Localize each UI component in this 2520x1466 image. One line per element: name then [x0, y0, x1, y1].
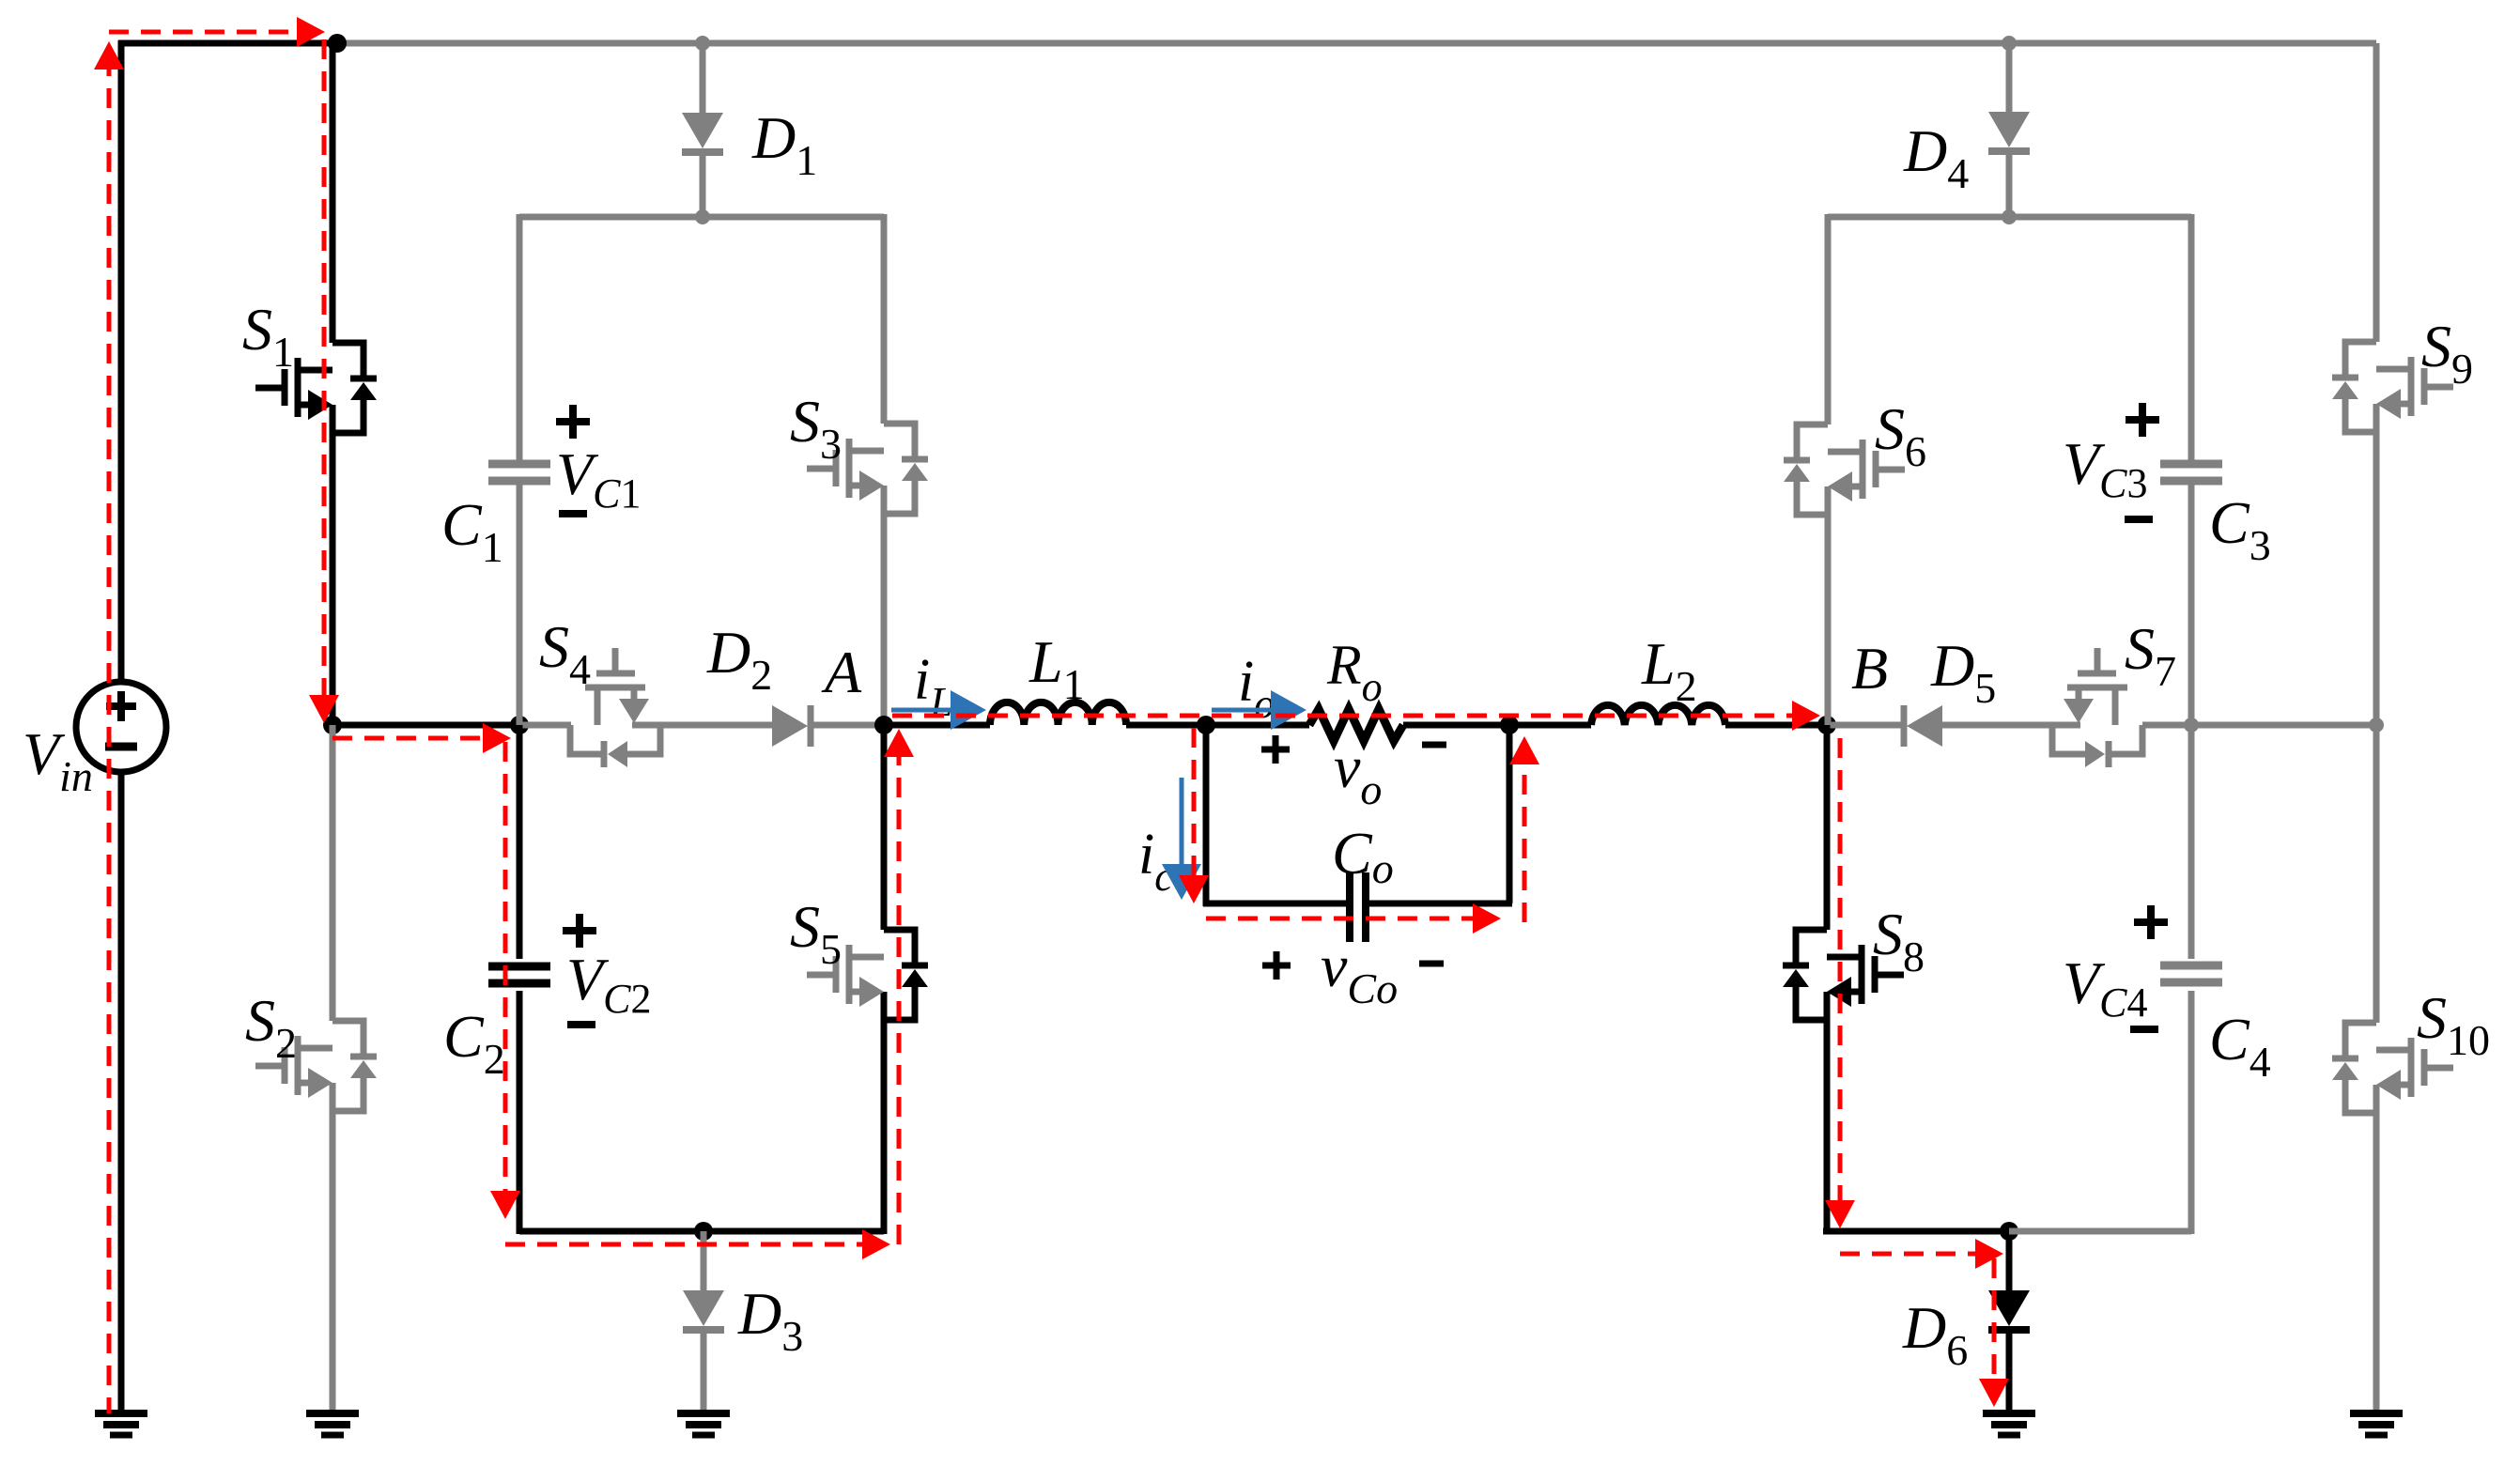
label D5	[1930, 632, 1996, 712]
diode D4	[1988, 112, 2030, 151]
current path arrow down Co	[1179, 875, 1209, 903]
label C3	[2209, 489, 2271, 569]
wire S3 source	[881, 514, 888, 725]
current path arrow up A	[884, 729, 914, 757]
label VC3 plus	[2126, 403, 2159, 437]
resistor Ro	[1309, 709, 1403, 741]
svg-text:L2: L2	[1641, 630, 1697, 710]
current path S1 vertical	[322, 39, 327, 695]
label VC4	[2063, 949, 2147, 1026]
label vo	[1334, 733, 1382, 813]
transistor S1	[255, 343, 377, 433]
transistor S3	[807, 424, 928, 514]
transistor S6	[1784, 424, 1905, 515]
node C3-rail junction	[2184, 718, 2199, 733]
wire Co loop bottom-left	[1203, 901, 1350, 907]
node J2	[1500, 716, 1519, 734]
label Co	[1332, 820, 1394, 892]
capacitor C2	[488, 966, 550, 983]
wire B to D5	[1827, 722, 1901, 729]
transistor S7	[2052, 648, 2142, 767]
svg-text:D5: D5	[1930, 632, 1996, 712]
label C2	[443, 1003, 505, 1083]
node top-left junction	[328, 34, 347, 53]
label S9	[2421, 313, 2473, 393]
current path bottom left horizontal	[505, 1242, 862, 1247]
label vCo plus	[1262, 951, 1291, 980]
label S3	[790, 388, 842, 468]
svg-text:S6: S6	[1875, 395, 1926, 475]
current path arrow right Co	[1473, 903, 1501, 934]
ground Vin	[95, 1413, 147, 1435]
svg-text:Vin: Vin	[23, 720, 93, 800]
current path top horizontal	[109, 30, 297, 35]
wire C1-box top	[519, 214, 884, 221]
label S1	[242, 296, 294, 376]
wire D5 to S7	[1942, 722, 2052, 729]
wire C1 bottom	[517, 485, 523, 725]
svg-text:A: A	[821, 639, 862, 705]
svg-text:S3: S3	[790, 388, 842, 468]
current path bottom right horizontal	[1840, 1252, 1975, 1257]
transistor S8	[1783, 930, 1904, 1020]
wire S6 drain	[1825, 214, 1832, 424]
current path arrow down C2	[490, 1191, 520, 1219]
node D1 top junction	[695, 36, 710, 51]
current path arrow down ground	[1979, 1379, 2009, 1407]
current path arrow right B	[1792, 701, 1820, 731]
label C4	[2209, 1006, 2271, 1086]
wire S8 drain	[1824, 725, 1831, 930]
svg-text:S10: S10	[2417, 984, 2490, 1064]
svg-text:S2: S2	[245, 987, 297, 1067]
label S7	[2125, 615, 2176, 695]
current path arrow right rail	[483, 723, 511, 753]
label VC3	[2063, 430, 2147, 506]
wire C4 lower vertical	[2188, 991, 2195, 1234]
wire Co loop right	[1507, 725, 1513, 903]
svg-text:D1: D1	[751, 104, 817, 184]
wire D3 top	[701, 1231, 707, 1290]
node D4 top junction	[2002, 36, 2017, 51]
svg-text:Co: Co	[1332, 820, 1394, 892]
label VC1	[556, 440, 641, 517]
current path Co left vertical	[1192, 728, 1197, 877]
svg-text:Ro: Ro	[1326, 634, 1383, 710]
wire L2 to B	[1725, 722, 1827, 729]
node D3 junction	[694, 1222, 713, 1241]
label B	[1851, 635, 1888, 702]
node S1-rail junction	[323, 716, 342, 734]
svg-text:VC1: VC1	[556, 440, 641, 517]
transistor S9	[2332, 342, 2453, 432]
label VC1 plus	[556, 405, 590, 439]
current path S5 vertical	[897, 757, 902, 1244]
node B	[1817, 716, 1836, 734]
svg-text:D4: D4	[1903, 117, 1969, 197]
wire mid rail black	[332, 722, 522, 729]
label VC2	[566, 946, 651, 1022]
wire Vin top horizontal	[118, 40, 337, 47]
svg-text:S8: S8	[1873, 901, 1925, 980]
ground S10	[2350, 1413, 2403, 1435]
current path Co bottom	[1206, 917, 1473, 921]
label VC2 plus	[563, 914, 596, 948]
transistor S10	[2332, 1023, 2453, 1113]
wire S2 drain	[330, 725, 336, 1021]
wire D2 to A	[813, 722, 884, 729]
wire S3 drain	[881, 214, 888, 424]
ground S2	[306, 1413, 359, 1435]
wire C2 bottom	[517, 991, 523, 1234]
node J1	[1197, 716, 1215, 734]
svg-text:VC3: VC3	[2063, 430, 2147, 506]
wire S1 drain	[330, 43, 336, 343]
label S8	[1873, 901, 1925, 980]
transistor S5	[807, 930, 928, 1020]
wire S4 to D2	[660, 722, 772, 729]
current path arrow right D6	[1975, 1239, 2003, 1269]
wire S6 source	[1825, 515, 1832, 725]
svg-text:C3: C3	[2209, 489, 2271, 569]
wire right rail top segment	[2373, 43, 2380, 342]
wire D4 top	[2006, 43, 2013, 112]
current path arrow up J2	[1509, 736, 1539, 764]
svg-text:S1: S1	[242, 296, 294, 376]
diode D2	[772, 705, 811, 747]
wire A to L1	[884, 722, 990, 729]
wire rail to S4	[522, 722, 571, 729]
label S4	[539, 613, 591, 693]
wire L1 to J1	[1126, 722, 1206, 729]
wire D6 top	[2006, 1231, 2013, 1290]
node D6 junction	[2000, 1222, 2018, 1241]
wire rail to right rail	[2191, 722, 2376, 729]
label Vin	[23, 720, 93, 800]
wire top rail gray	[337, 40, 2376, 47]
diode D3	[683, 1290, 724, 1330]
capacitor C3	[2160, 464, 2222, 481]
label Ro	[1326, 634, 1383, 710]
wire S8 to D6 junction	[1823, 1228, 2009, 1235]
label D3	[737, 1280, 803, 1360]
wire C4 bottom horizontal	[2009, 1228, 2191, 1235]
wire S8 source	[1824, 1020, 1831, 1234]
wire D1 bottom	[700, 152, 706, 217]
svg-text:vo: vo	[1334, 733, 1382, 813]
svg-text:S7: S7	[2125, 615, 2176, 695]
svg-text:VC2: VC2	[566, 946, 651, 1022]
label D2	[706, 619, 772, 699]
wire right-box top	[1828, 214, 2191, 221]
current arrow io	[1212, 690, 1306, 730]
current path Co right vertical	[1523, 763, 1527, 922]
svg-text:ic: ic	[1138, 823, 1173, 900]
wire S5 source	[881, 1020, 888, 1234]
wire D6 bottom	[2006, 1330, 2013, 1413]
label L1	[1028, 628, 1085, 708]
svg-text:S9: S9	[2421, 313, 2473, 393]
wire J1 to Ro	[1206, 722, 1309, 729]
label L2	[1641, 630, 1697, 710]
current path S8 vertical	[1838, 738, 1843, 1200]
svg-text:D6: D6	[1902, 1294, 1968, 1374]
svg-text:VC4: VC4	[2063, 949, 2147, 1026]
svg-text:S5: S5	[790, 893, 842, 973]
capacitor C4	[2160, 965, 2222, 982]
svg-text:vCo: vCo	[1321, 933, 1398, 1012]
label io	[1238, 650, 1275, 727]
current arrow iL	[891, 690, 986, 730]
ground D3	[677, 1413, 730, 1435]
capacitor C1	[488, 464, 550, 481]
svg-text:C2: C2	[443, 1003, 505, 1083]
wire C3 top	[2188, 214, 2195, 460]
label VC2 minus	[567, 1021, 595, 1028]
wire C3 bottom	[2188, 485, 2195, 725]
transistor S4	[570, 648, 660, 767]
node D1 bottom junction	[695, 209, 710, 224]
node right-rail mid junction	[2369, 718, 2384, 733]
label iL	[914, 648, 953, 725]
label VC4 plus	[2134, 905, 2168, 939]
wire C2-box bottom	[519, 1228, 884, 1235]
svg-text:C1: C1	[441, 491, 503, 571]
wire D4 bottom	[2006, 151, 2013, 217]
label VC4 minus	[2130, 1026, 2158, 1033]
label VC3 minus	[2125, 516, 2153, 523]
svg-text:S4: S4	[539, 613, 591, 693]
node D4 bottom junction	[2002, 209, 2017, 224]
label S10	[2417, 984, 2490, 1064]
wire J2 to L2	[1509, 722, 1591, 729]
diode D5	[1904, 705, 1942, 747]
wire S2 source	[330, 1111, 336, 1413]
svg-text:D2: D2	[706, 619, 772, 699]
label S2	[245, 987, 297, 1067]
wire right rail bottom	[2373, 1113, 2380, 1413]
label VC1 minus	[559, 510, 587, 517]
wire C4 upper vertical	[2188, 725, 2195, 959]
wire D3 bottom	[701, 1330, 707, 1413]
voltage source Vin circle	[76, 682, 166, 772]
ground D6	[1983, 1413, 2035, 1435]
wire right rail mid	[2373, 432, 2380, 1023]
label vCo minus	[1419, 961, 1444, 967]
node C-branch rail junction	[510, 716, 529, 734]
svg-text:B: B	[1851, 635, 1888, 702]
wire Co loop bottom-right	[1366, 901, 1512, 907]
inductor L1	[990, 702, 1126, 725]
wire S5 drain	[881, 725, 888, 930]
current path arrow up left	[94, 41, 124, 69]
label D4	[1903, 117, 1969, 197]
label vo plus	[1261, 735, 1290, 764]
diode D6	[1988, 1290, 2030, 1330]
label ic	[1138, 823, 1173, 900]
current path rail left	[332, 736, 483, 741]
current path left vertical	[107, 56, 112, 1413]
current arrow ic	[1162, 778, 1201, 900]
wire S7 to C3 junction	[2142, 722, 2191, 729]
label D6	[1902, 1294, 1968, 1374]
current path D6 vertical	[1992, 1258, 1997, 1379]
label S5	[790, 893, 842, 973]
label vCo	[1321, 933, 1398, 1012]
current path arrow right bottom	[862, 1229, 890, 1259]
current path arrow down S8	[1825, 1200, 1855, 1228]
wire Ro to J2	[1403, 722, 1509, 729]
current path arrow down S1	[309, 695, 339, 723]
svg-text:L1: L1	[1028, 628, 1085, 708]
label vo minus	[1422, 742, 1446, 748]
diode D1	[682, 113, 723, 152]
node A	[874, 716, 893, 734]
inductor L2	[1591, 705, 1725, 725]
wire Vin top vertical	[118, 40, 125, 682]
wire S1 source	[330, 433, 336, 725]
svg-text:C4: C4	[2209, 1006, 2271, 1086]
label S6	[1875, 395, 1926, 475]
wire C2 top	[517, 725, 523, 959]
current path C2 vertical	[503, 742, 508, 1191]
capacitor Co	[1350, 872, 1366, 942]
label D1	[751, 104, 817, 184]
current path rail A to B	[892, 714, 1792, 718]
current path arrow right top	[297, 17, 325, 47]
label C1	[441, 491, 503, 571]
wire D1 top	[700, 43, 706, 113]
transistor S2	[255, 1021, 377, 1111]
wire Vin bottom vertical	[118, 772, 125, 1413]
wire C1 top	[517, 214, 523, 460]
svg-text:D3: D3	[737, 1280, 803, 1360]
wire Co loop left	[1203, 725, 1210, 906]
label A	[821, 639, 862, 705]
